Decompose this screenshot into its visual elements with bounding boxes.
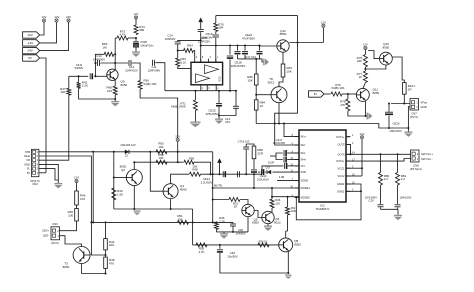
label VFan	[421, 100, 428, 104]
svg-text:2.2: 2.2	[401, 177, 406, 181]
resistor R58	[156, 160, 167, 164]
svg-text:VCC2: VCC2	[337, 174, 344, 178]
wire	[365, 101, 367, 116]
capacitor C14B	[233, 106, 239, 108]
label C616	[201, 32, 213, 39]
svg-text:IN4+: IN4+	[301, 158, 307, 162]
wire	[287, 159, 299, 161]
label CE26	[393, 122, 400, 126]
label R34	[259, 239, 268, 243]
label R36A	[275, 198, 281, 205]
junction	[253, 173, 255, 175]
wire	[219, 108, 236, 115]
svg-text:224F/08V: 224F/08V	[148, 69, 161, 73]
wire	[392, 57, 404, 83]
capacitor CE26	[385, 112, 393, 115]
svg-text:(P2.5): (P2.5)	[410, 115, 418, 119]
wire	[223, 232, 225, 233]
svg-text:Mute: Mute	[24, 154, 30, 158]
wire	[128, 37, 136, 39]
transistor T8	[268, 77, 287, 103]
svg-text:CN2: CN2	[32, 182, 38, 186]
junction	[212, 173, 214, 175]
svg-text:C17 104: C17 104	[245, 55, 256, 59]
junction	[114, 98, 116, 100]
svg-text:100: 100	[107, 89, 112, 93]
svg-text:10K: 10K	[158, 145, 163, 149]
capacitor C412	[238, 171, 240, 177]
svg-text:224F/02V: 224F/02V	[125, 69, 138, 73]
svg-text:100uF/16v: 100uF/16v	[140, 44, 154, 48]
ground GND9	[220, 233, 228, 238]
wire	[322, 28, 324, 43]
wire	[364, 67, 366, 71]
label 4.4B	[279, 175, 285, 179]
wire	[114, 63, 116, 70]
wire	[219, 245, 221, 249]
svg-text:8050: 8050	[252, 221, 259, 225]
wire	[178, 40, 201, 41]
junction	[259, 45, 261, 47]
wire	[282, 52, 284, 64]
junction	[114, 62, 116, 64]
wire	[391, 103, 410, 105]
svg-text:10UF/25V: 10UF/25V	[273, 141, 286, 145]
wire	[215, 230, 217, 232]
ground GND7	[404, 132, 412, 137]
wire	[380, 208, 382, 210]
wire	[271, 188, 273, 199]
power arrow VCC arrow 2	[217, 158, 222, 163]
label CN7	[410, 111, 418, 118]
power flag PWR4 12V	[134, 12, 139, 25]
ground GND5	[215, 119, 223, 124]
resistor R47	[60, 87, 71, 95]
svg-text:8050: 8050	[383, 46, 390, 50]
svg-text:-12V: -12V	[27, 41, 33, 45]
junction	[274, 123, 276, 125]
wire	[40, 22, 69, 50]
junction	[105, 273, 107, 275]
svg-text:9012: 9012	[274, 220, 281, 224]
ground GND4	[190, 122, 200, 128]
resistor R84	[254, 100, 265, 110]
svg-text:R48: R48	[192, 168, 198, 172]
wire	[273, 171, 300, 173]
pin 3 CN2	[24, 162, 38, 166]
net tag -12V	[23, 40, 40, 46]
label R69	[102, 42, 108, 49]
wire	[135, 38, 137, 41]
svg-text:GND: GND	[421, 105, 427, 109]
svg-text:9012: 9012	[268, 80, 275, 84]
wire	[368, 51, 379, 59]
svg-text:12V: 12V	[27, 33, 32, 37]
wire	[289, 42, 323, 44]
svg-text:103: 103	[275, 201, 280, 205]
svg-text:2K: 2K	[234, 205, 238, 209]
wire	[213, 187, 299, 189]
svg-text:24V: 24V	[360, 132, 365, 136]
wire	[288, 165, 299, 167]
wire	[240, 200, 248, 205]
svg-text:8050: 8050	[373, 91, 380, 95]
svg-text:VCC1: VCC1	[337, 166, 344, 170]
wire	[286, 215, 288, 231]
label R36B	[291, 206, 296, 213]
junction	[78, 75, 80, 77]
wire	[246, 144, 254, 146]
svg-text:104: 104	[225, 120, 230, 124]
label LED+	[42, 229, 49, 233]
junction	[255, 94, 257, 96]
ground GND3	[132, 52, 140, 57]
label R78	[340, 100, 346, 107]
capacitor C630	[133, 42, 139, 47]
wire	[150, 152, 163, 191]
wire	[232, 222, 234, 224]
connector CN7	[410, 99, 419, 111]
pin 14 OUT3	[337, 152, 355, 157]
junction	[237, 45, 239, 47]
power flag PWR2 -12V	[54, 15, 60, 22]
wire	[346, 153, 411, 155]
wire	[177, 142, 179, 163]
wire	[113, 152, 115, 209]
ground GND1	[54, 183, 62, 188]
pin 1 U1 bottom	[201, 85, 204, 91]
resistor R70	[214, 23, 218, 32]
wire	[237, 46, 239, 51]
wire	[245, 150, 247, 175]
svg-text:STB: STB	[25, 150, 30, 154]
wire	[76, 205, 78, 209]
svg-text:OUT2: OUT2	[337, 143, 344, 147]
junction	[92, 221, 94, 223]
junction	[94, 62, 96, 64]
capacitor C21	[395, 205, 401, 207]
label Z2	[125, 155, 129, 158]
svg-text:R58: R58	[189, 156, 194, 160]
capacitor C11	[153, 60, 155, 66]
wire	[40, 22, 57, 43]
resistor R81	[396, 172, 407, 185]
svg-text:LED+: LED+	[42, 229, 49, 233]
wire	[381, 208, 399, 210]
power arrow VCC arrow 1	[198, 18, 203, 23]
wire	[346, 184, 361, 191]
ground GND8	[264, 226, 272, 231]
svg-text:1.5K: 1.5K	[117, 192, 123, 196]
wire	[105, 268, 107, 273]
power flag PWR1 +12V	[42, 15, 47, 22]
svg-text:TDA8947J: TDA8947J	[316, 207, 330, 211]
junction	[295, 196, 297, 198]
junction	[245, 173, 247, 175]
wire	[68, 76, 70, 88]
wire	[69, 75, 88, 77]
label C20	[365, 195, 377, 202]
IC U2 TDA8947J	[299, 130, 346, 202]
svg-text:104F/50V: 104F/50V	[93, 58, 105, 62]
pin 13 CIV	[290, 163, 305, 168]
svg-text:54(B) 240K: 54(B) 240K	[171, 105, 186, 109]
wire	[262, 166, 283, 174]
wire	[216, 15, 298, 17]
junction	[113, 151, 115, 153]
label C14	[165, 34, 176, 41]
wire	[39, 156, 106, 255]
junction	[232, 231, 234, 233]
pin 4 CN2	[27, 158, 39, 162]
wire	[275, 16, 299, 145]
svg-text:CN3: CN3	[52, 222, 58, 226]
junction	[219, 173, 221, 175]
svg-text:(P2.5): (P2.5)	[51, 241, 58, 245]
junction	[212, 221, 214, 223]
pin 6 CN2	[25, 150, 39, 154]
pin 8 U1 top	[201, 57, 204, 62]
svg-text:220F/25V: 220F/25V	[198, 39, 210, 43]
wire	[94, 75, 107, 77]
wire	[39, 164, 58, 183]
wire	[287, 152, 299, 154]
wire	[39, 169, 58, 180]
transistor Q9	[107, 69, 128, 87]
svg-text:8050: 8050	[121, 83, 128, 87]
resistor R101	[403, 83, 416, 95]
label C16	[198, 36, 210, 43]
op-amp U1a triangle	[205, 65, 219, 74]
wire	[135, 47, 137, 51]
wire	[229, 46, 231, 55]
wire	[277, 180, 299, 182]
ground arrow AGND arrow Q11	[367, 113, 373, 120]
svg-text:12V: 12V	[363, 43, 368, 47]
svg-text:10R: 10R	[291, 209, 296, 213]
svg-text:4.7K: 4.7K	[119, 33, 125, 37]
svg-text:R34 1K: R34 1K	[259, 239, 268, 243]
svg-text:IN: IN	[314, 92, 317, 96]
svg-text:5V: 5V	[27, 171, 30, 175]
junction	[235, 90, 237, 92]
junction	[92, 151, 94, 153]
label CE12	[201, 177, 213, 184]
wire	[200, 22, 202, 29]
label RT1	[171, 101, 186, 108]
svg-text:104/50V: 104/50V	[165, 37, 176, 41]
junction	[177, 50, 179, 52]
resistor R30	[196, 243, 207, 247]
pin 2 U1 top	[195, 57, 198, 62]
junction	[170, 208, 172, 210]
wire	[105, 250, 107, 257]
wire	[40, 58, 46, 173]
resistor R52	[68, 209, 79, 222]
wire	[267, 224, 269, 226]
wire	[346, 136, 350, 138]
label R48	[192, 164, 198, 171]
capacitor CE14B	[262, 169, 265, 175]
wire	[194, 162, 211, 174]
resistor R49	[112, 188, 123, 200]
label CE22	[242, 33, 255, 40]
capacitor C18	[98, 60, 100, 66]
wire	[255, 110, 257, 123]
transistor Q8	[279, 238, 302, 252]
label D17	[266, 166, 271, 170]
wire	[114, 177, 126, 179]
pin 6 IN2-	[292, 142, 306, 147]
resistor R48B	[104, 257, 115, 268]
junction	[278, 123, 280, 125]
svg-text:54(B) 10K: 54(B) 10K	[331, 86, 344, 90]
resistor R36A	[270, 199, 274, 208]
wire	[260, 45, 277, 47]
label R56	[144, 79, 157, 86]
svg-text:CE26: CE26	[393, 122, 400, 126]
svg-text:MUTE: MUTE	[214, 183, 222, 187]
transistor Q5	[242, 204, 259, 224]
junction	[212, 199, 214, 201]
label CE14	[257, 174, 269, 181]
svg-text:100U/25V: 100U/25V	[389, 129, 402, 133]
wire	[397, 208, 399, 210]
svg-text:24V: 24V	[66, 15, 71, 19]
wire	[82, 264, 106, 274]
junction	[133, 161, 135, 163]
pin 11 SVR	[291, 170, 307, 175]
svg-text:2.2U/50V: 2.2U/50V	[201, 180, 213, 184]
svg-text:10K: 10K	[177, 217, 182, 221]
pin 15 GND2	[337, 181, 355, 186]
pin 12 IN4+	[290, 157, 306, 162]
wire	[270, 155, 276, 157]
capacitor CE12	[223, 171, 226, 177]
svg-text:SW Out +: SW Out +	[421, 152, 434, 156]
junction	[259, 45, 261, 47]
pin 7 SGND	[292, 178, 309, 183]
label C11	[148, 65, 161, 72]
svg-text:12V: 12V	[134, 12, 139, 16]
svg-text:SW Out -: SW Out -	[421, 157, 433, 161]
wire	[380, 185, 382, 204]
pin 2 VCC1	[337, 166, 354, 171]
svg-text:Q2: Q2	[121, 168, 125, 172]
wire	[213, 199, 229, 201]
wire	[215, 16, 217, 23]
label CE18	[231, 61, 246, 68]
junction	[361, 167, 363, 169]
svg-text:VDD: VDD	[219, 76, 222, 81]
svg-text:100: 100	[68, 214, 73, 218]
junction	[149, 151, 151, 153]
label R64	[187, 44, 193, 48]
svg-text:470: 470	[80, 197, 85, 201]
diode D17	[267, 170, 271, 174]
wire	[219, 163, 221, 174]
wire	[79, 88, 116, 99]
svg-text:1N4148 12V: 1N4148 12V	[120, 143, 136, 147]
resistor R51	[178, 220, 189, 224]
wire	[114, 208, 193, 210]
svg-text:GND: GND	[24, 162, 30, 166]
label R31	[233, 201, 239, 208]
wire	[366, 115, 368, 117]
resistor R66	[281, 64, 292, 77]
resistor R46	[75, 191, 86, 205]
wire	[177, 51, 179, 59]
wire	[201, 45, 260, 47]
transistor Q11	[356, 88, 379, 102]
wire	[235, 91, 237, 107]
capacitor C13	[129, 60, 131, 66]
resistor RT1	[193, 100, 197, 111]
svg-text:D17: D17	[266, 166, 271, 170]
wire	[247, 217, 249, 232]
svg-text:R64: R64	[187, 44, 193, 48]
wire	[39, 172, 46, 174]
label LED-	[43, 234, 49, 238]
capacitor C417B	[284, 157, 287, 163]
wire	[105, 222, 107, 238]
capacitor CE18	[227, 56, 233, 59]
wire	[60, 236, 82, 247]
label C13	[125, 65, 138, 72]
svg-text:8550: 8550	[280, 32, 287, 36]
wire	[278, 103, 280, 124]
capacitor C6A	[217, 250, 223, 253]
wire	[91, 221, 233, 223]
wire	[220, 253, 288, 273]
junction	[229, 45, 231, 47]
label R63	[181, 57, 187, 64]
junction	[403, 103, 405, 105]
wire	[170, 199, 172, 209]
svg-text:IN3-: IN3-	[301, 151, 306, 155]
label SW Out +	[421, 152, 434, 156]
wire	[215, 32, 217, 35]
wire	[388, 104, 390, 112]
junction	[200, 45, 202, 47]
svg-text:22K: 22K	[357, 59, 362, 63]
resistor R56	[138, 81, 142, 90]
pin 4 U1 top	[208, 57, 211, 62]
op-amp U1b triangle	[196, 74, 210, 83]
junction	[350, 153, 352, 155]
wire	[238, 58, 260, 60]
svg-text:4.4B: 4.4B	[279, 175, 285, 179]
label CN6	[410, 163, 423, 170]
resistor R69	[104, 52, 114, 56]
connector CN6	[411, 150, 420, 162]
resistor R31	[229, 198, 240, 202]
junction	[219, 244, 221, 246]
svg-text:OUT1+: OUT1+	[336, 135, 345, 139]
wire	[218, 106, 220, 118]
label R30	[199, 246, 205, 253]
resistor R76	[331, 92, 342, 96]
svg-text:LED-: LED-	[43, 234, 49, 238]
wire	[268, 208, 272, 213]
wire	[403, 94, 405, 103]
wire	[95, 54, 104, 76]
junction	[113, 177, 115, 179]
power flag PWR6 12V B	[363, 43, 368, 55]
wire	[259, 46, 261, 51]
wire	[253, 173, 255, 188]
wire	[253, 159, 255, 169]
